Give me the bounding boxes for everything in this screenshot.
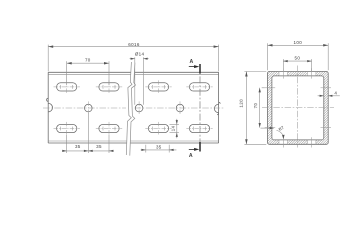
slot S7 bottom row col3 [145, 122, 171, 135]
plate top edge inner (left of break) [48, 73, 130, 75]
break line right [130, 63, 136, 156]
plate top edge outer (right of break) [134, 71, 218, 73]
partial hole at left edge [47, 98, 53, 112]
slot S1 top row col1 [54, 80, 80, 93]
plate bottom edge outer (left of break) [48, 142, 127, 144]
dimension 70 plan [67, 61, 109, 85]
svg-text:35: 35 [156, 144, 162, 149]
plate top edge outer (left of break) [48, 71, 130, 73]
break line left [126, 62, 132, 155]
section vertical centerline [297, 66, 299, 148]
slot S3 top row col3 [145, 80, 171, 93]
slot centerline ticks top wall [265, 68, 331, 147]
svg-text:A: A [190, 59, 194, 65]
hole H2 [135, 101, 143, 114]
slot S5 bottom row col1 [54, 122, 80, 135]
svg-text:35: 35 [75, 144, 81, 149]
partial hole at right edge [214, 102, 220, 115]
section line thick end bottom [199, 142, 201, 152]
dimensions 35 35 bottom left [62, 113, 114, 153]
dimension 100 [268, 43, 329, 70]
svg-text:35: 35 [96, 144, 102, 149]
svg-text:70: 70 [85, 58, 91, 63]
dimension 50 [283, 59, 311, 71]
section horizontal centerline [262, 107, 334, 109]
svg-text:A: A [189, 153, 193, 159]
section arrow bottom [189, 148, 196, 150]
radius callout R7 [261, 128, 284, 138]
slot S6 bottom row col2 [96, 122, 122, 135]
section line thick end top [199, 64, 201, 74]
plate bottom edge inner (right of break) [131, 140, 219, 142]
hole H3 [176, 101, 184, 114]
slot S2 top row col2 [96, 80, 122, 93]
svg-text:14: 14 [171, 126, 176, 132]
svg-text:120: 120 [239, 99, 244, 108]
plate left edge [47, 72, 49, 143]
plate right edge [218, 72, 220, 143]
tube outer contour [268, 72, 329, 145]
svg-text:Ø14: Ø14 [135, 51, 145, 56]
dimension 4 wall [318, 95, 340, 97]
slot S8 bottom row col4 [186, 124, 212, 132]
hole H1 [85, 101, 93, 114]
section line A-A [199, 64, 201, 152]
slot gaps in top and bottom walls [279, 71, 288, 77]
svg-text:R7: R7 [278, 125, 286, 132]
plate mid centerline [43, 107, 225, 109]
dimension diameter 14 [130, 57, 149, 105]
svg-text:70: 70 [253, 103, 258, 109]
slot S4 top row col4 [186, 83, 212, 91]
section arrow top [189, 66, 196, 68]
dimension 70 section [260, 88, 265, 128]
plate top edge inner (right of break) [134, 73, 219, 75]
dimension 14 slot width [170, 119, 179, 138]
dimension 35 bottom right [141, 145, 177, 153]
slot gap edge lines [279, 72, 316, 145]
tube inner contour [272, 76, 324, 140]
svg-text:50: 50 [295, 56, 301, 61]
svg-text:4: 4 [334, 91, 337, 96]
plate bottom edge outer (right of break) [130, 142, 218, 144]
svg-text:6016: 6016 [128, 42, 140, 47]
hatched wall [268, 71, 329, 145]
svg-text:100: 100 [294, 40, 303, 45]
dimension 6016 [48, 45, 218, 72]
slot row ticks side walls [265, 87, 276, 89]
plate bottom edge inner (left of break) [48, 140, 127, 142]
dimension 120 [244, 72, 266, 145]
